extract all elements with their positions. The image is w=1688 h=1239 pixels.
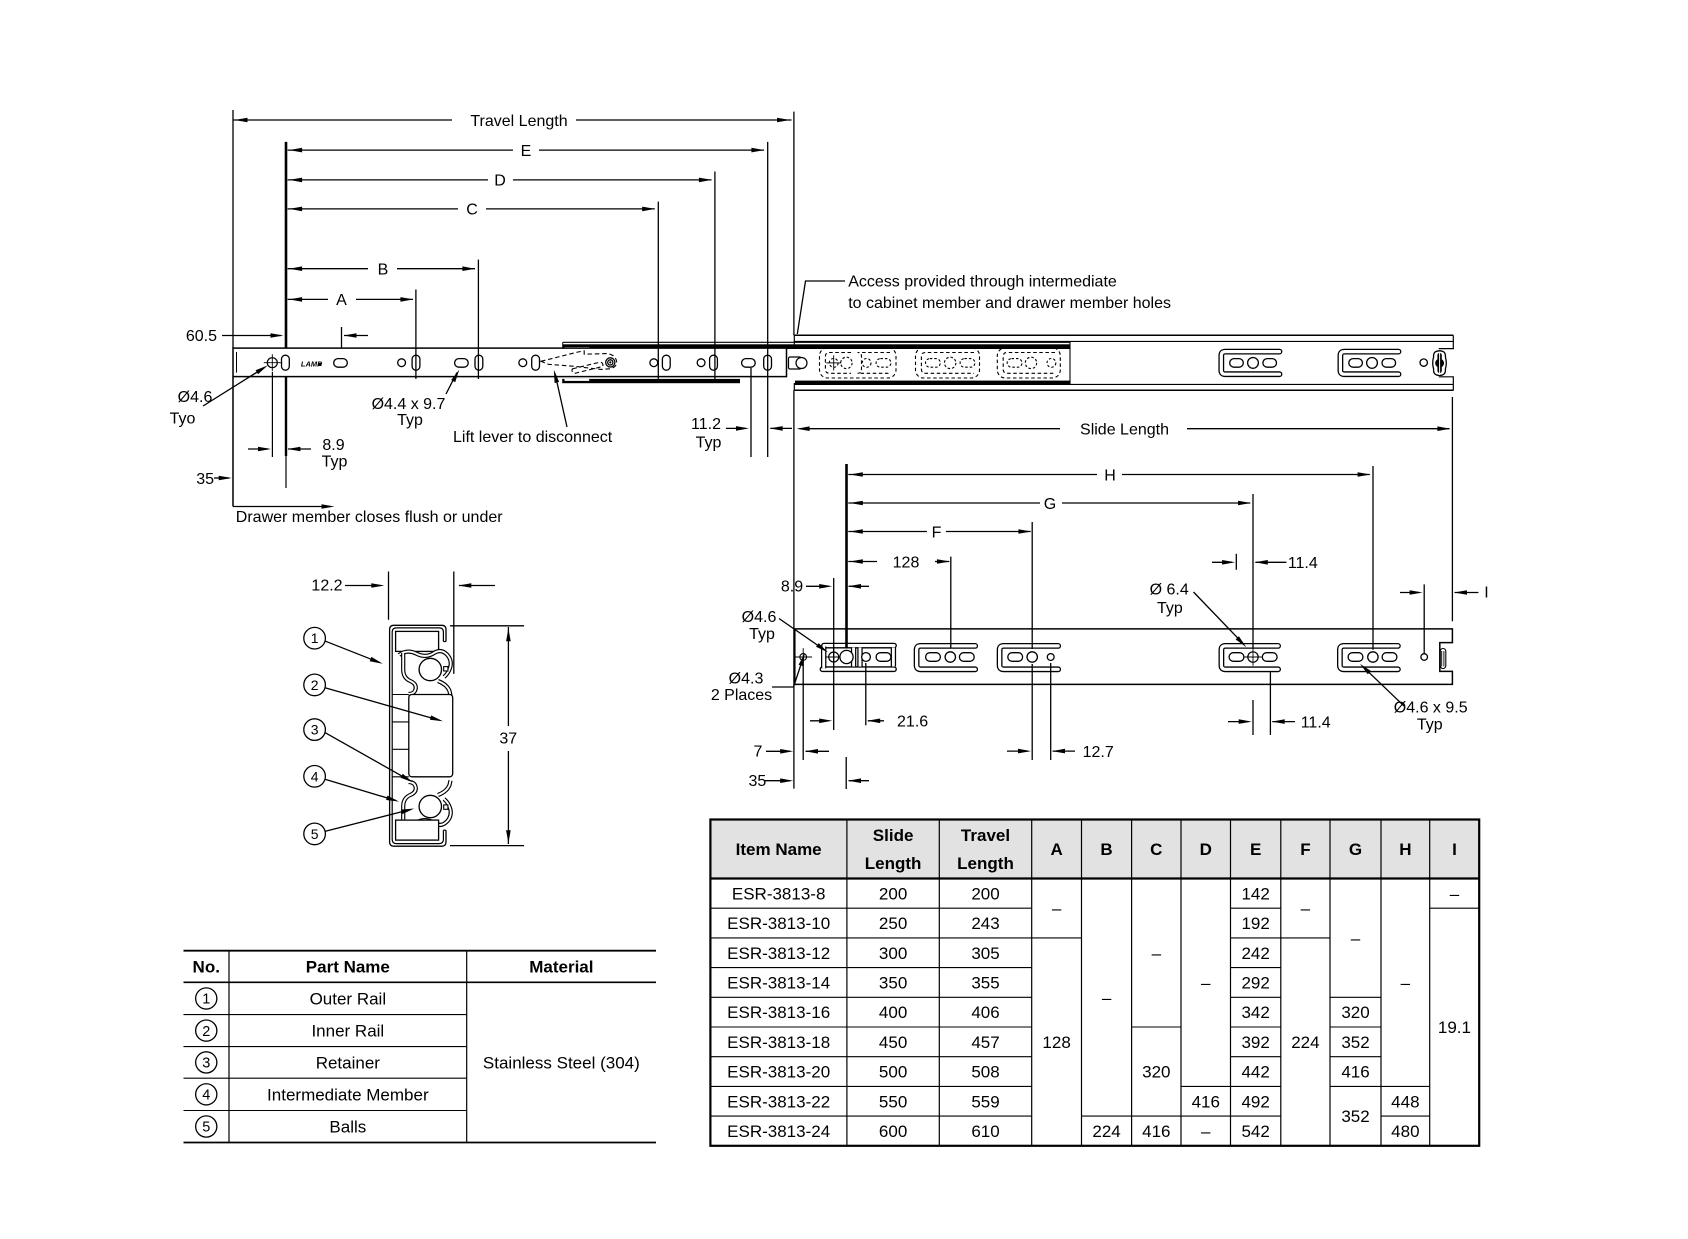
svg-text:2: 2 [311, 677, 319, 693]
svg-text:–: – [1201, 973, 1211, 992]
svg-text:B: B [1100, 840, 1112, 859]
dimension 12.7 [1007, 750, 1028, 752]
cross-section dimension 37 [507, 627, 509, 726]
section label 1 [304, 627, 326, 649]
svg-text:1: 1 [311, 630, 319, 646]
svg-text:Length: Length [865, 854, 922, 873]
svg-text:F: F [932, 524, 942, 541]
outer rail dashed access holes group 1 [820, 348, 897, 378]
bottom rail bracket 4 [1221, 646, 1278, 669]
svg-text:320: 320 [1341, 1003, 1369, 1022]
svg-text:11.4: 11.4 [1301, 714, 1331, 731]
svg-text:–: – [1351, 929, 1361, 948]
cross-section ball top [419, 658, 441, 680]
cross-section outer rail profile [390, 625, 446, 846]
svg-text:142: 142 [1241, 884, 1269, 903]
dimension 8.9 Typ [271, 372, 273, 457]
outer rail (cabinet member) side view [794, 334, 1453, 336]
svg-text:Typ: Typ [397, 412, 423, 429]
dimension 11.2 Typ [750, 368, 752, 457]
svg-text:5: 5 [311, 826, 319, 842]
svg-text:8.9: 8.9 [781, 579, 803, 596]
outer rail dashed access holes group 3 [997, 348, 1060, 378]
bottom rail hole: dia4.3 cross circle left [800, 654, 807, 661]
svg-text:457: 457 [971, 1033, 999, 1052]
svg-text:–: – [1152, 944, 1162, 963]
svg-text:3: 3 [202, 1056, 210, 1072]
bottom rail bracket 5 [1340, 646, 1398, 669]
lift lever dashed outline [541, 351, 617, 370]
svg-text:Typ: Typ [1157, 600, 1183, 617]
dimension 128 [848, 561, 877, 563]
svg-text:4: 4 [202, 1088, 210, 1104]
svg-text:11.2: 11.2 [691, 416, 721, 433]
svg-text:128: 128 [1042, 1033, 1070, 1052]
svg-text:8.9: 8.9 [322, 437, 344, 454]
svg-text:224: 224 [1092, 1122, 1120, 1141]
svg-text:Inner Rail: Inner Rail [311, 1022, 384, 1041]
bottom view rail outline [795, 629, 1453, 685]
svg-text:G: G [1044, 496, 1056, 513]
svg-text:500: 500 [879, 1063, 907, 1082]
svg-text:242: 242 [1241, 944, 1269, 963]
svg-text:21.6: 21.6 [897, 714, 928, 731]
note: drawer member closes flush or under [233, 506, 330, 508]
svg-text:ESR-3813-18: ESR-3813-18 [727, 1033, 830, 1052]
svg-text:406: 406 [971, 1003, 999, 1022]
bottom rail bracket 3 [1000, 646, 1059, 669]
cross-section retainer bottom [399, 799, 451, 825]
svg-text:Length: Length [957, 854, 1014, 873]
svg-text:Item Name: Item Name [736, 840, 822, 859]
svg-text:–: – [1201, 1122, 1211, 1141]
svg-text:5: 5 [202, 1120, 210, 1136]
inner rail (drawer member) side view [233, 348, 787, 377]
svg-text:Ø4.6 x 9.5: Ø4.6 x 9.5 [1394, 700, 1468, 717]
spec table header background [710, 820, 1479, 879]
bottom view dimension H [848, 474, 1097, 476]
top view: dimension Travel Length [233, 119, 452, 121]
dimension 11.4 top [1212, 561, 1232, 563]
dimension G [848, 502, 1040, 504]
svg-text:480: 480 [1391, 1122, 1419, 1141]
parts table [184, 950, 657, 952]
svg-text:305: 305 [971, 944, 999, 963]
svg-text:492: 492 [1241, 1092, 1269, 1111]
svg-text:–: – [1301, 899, 1311, 918]
svg-text:ESR-3813-16: ESR-3813-16 [727, 1003, 830, 1022]
svg-text:192: 192 [1241, 914, 1269, 933]
extension lines top dims [232, 110, 234, 348]
svg-text:352: 352 [1341, 1107, 1369, 1126]
svg-text:F: F [1300, 840, 1310, 859]
svg-text:Lift lever to disconnect: Lift lever to disconnect [453, 429, 613, 446]
svg-text:11.4: 11.4 [1288, 555, 1318, 572]
lift lever rivet [606, 358, 615, 367]
svg-text:Typ: Typ [749, 626, 775, 643]
parts row 1 [196, 988, 217, 1009]
intermediate member side view [563, 341, 1070, 343]
svg-text:559: 559 [971, 1092, 999, 1111]
svg-text:–: – [1450, 884, 1460, 903]
svg-text:C: C [466, 202, 478, 219]
svg-text:243: 243 [971, 914, 999, 933]
section label 5 [304, 823, 326, 845]
bottom rail right-end hole and crimp [1421, 654, 1428, 661]
svg-text:355: 355 [971, 973, 999, 992]
svg-text:E: E [521, 143, 532, 160]
svg-text:450: 450 [879, 1033, 907, 1052]
svg-text:Travel Length: Travel Length [470, 113, 567, 130]
svg-text:Tyo: Tyo [170, 411, 196, 428]
svg-text:D: D [494, 173, 506, 190]
cross-section top spacer [396, 631, 439, 651]
svg-text:ESR-3813-22: ESR-3813-22 [727, 1092, 830, 1111]
svg-text:Travel: Travel [961, 826, 1010, 845]
svg-text:Slide: Slide [873, 826, 914, 845]
svg-text:H: H [1104, 467, 1116, 484]
svg-text:Ø4.6: Ø4.6 [742, 609, 777, 626]
outer rail dashed access holes group 2 [916, 348, 980, 378]
parts row 3 [196, 1052, 217, 1073]
svg-text:A: A [1050, 840, 1062, 859]
cross-section ball bottom [419, 795, 441, 817]
svg-text:Access provided through interm: Access provided through intermediate [848, 274, 1117, 291]
svg-text:448: 448 [1391, 1092, 1419, 1111]
svg-text:35: 35 [196, 471, 214, 488]
outer rail mounting bracket 2 [1340, 352, 1398, 375]
svg-text:Retainer: Retainer [316, 1053, 381, 1072]
svg-text:416: 416 [1142, 1122, 1170, 1141]
parts row 2 [196, 1020, 217, 1041]
outer rail right-end hole and crimp slot [1420, 359, 1427, 366]
svg-text:–: – [1102, 988, 1112, 1007]
svg-text:ESR-3813-20: ESR-3813-20 [727, 1063, 830, 1082]
svg-text:Ø4.3: Ø4.3 [729, 671, 764, 688]
svg-text:G: G [1349, 840, 1362, 859]
dimension Slide Length [800, 428, 1061, 430]
svg-text:3: 3 [311, 722, 319, 738]
dimension 11.4 bottom [1228, 721, 1249, 723]
svg-text:Slide Length: Slide Length [1080, 422, 1169, 439]
dimension 21.6 [810, 720, 829, 722]
svg-text:Ø4.4 x 9.7: Ø4.4 x 9.7 [372, 396, 446, 413]
svg-text:128: 128 [893, 554, 920, 571]
svg-text:300: 300 [879, 944, 907, 963]
svg-text:C: C [1150, 840, 1162, 859]
svg-text:342: 342 [1241, 1003, 1269, 1022]
svg-text:Ø 6.4: Ø 6.4 [1150, 582, 1189, 599]
svg-text:292: 292 [1241, 973, 1269, 992]
cross-section inner rail [409, 695, 453, 777]
svg-text:550: 550 [879, 1092, 907, 1111]
svg-text:392: 392 [1241, 1033, 1269, 1052]
dimension E [288, 149, 513, 151]
svg-text:Typ: Typ [696, 435, 722, 452]
section label 2 [304, 674, 326, 696]
svg-text:416: 416 [1341, 1063, 1369, 1082]
svg-text:2 Places: 2 Places [711, 687, 772, 704]
svg-text:ESR-3813-8: ESR-3813-8 [732, 884, 826, 903]
svg-text:I: I [1452, 840, 1457, 859]
dimension B [288, 268, 368, 270]
spec table grid [710, 820, 1479, 1146]
dimension A [288, 298, 328, 300]
svg-text:7: 7 [754, 744, 763, 761]
svg-text:12.2: 12.2 [311, 578, 342, 595]
dimension I [1400, 592, 1419, 594]
svg-text:–: – [1401, 973, 1411, 992]
bottom rail bracket 2 [917, 646, 976, 669]
inner rail holes [267, 358, 277, 368]
section label 3 [304, 719, 326, 741]
svg-text:19.1: 19.1 [1438, 1018, 1471, 1037]
svg-text:200: 200 [971, 884, 999, 903]
svg-text:ESR-3813-24: ESR-3813-24 [727, 1122, 830, 1141]
dimension F [848, 531, 927, 533]
parts row 5 [196, 1116, 217, 1137]
cross-section retainer top [399, 651, 451, 677]
svg-text:ESR-3813-10: ESR-3813-10 [727, 914, 830, 933]
inner rail right end latch [789, 357, 802, 369]
svg-text:1: 1 [202, 992, 210, 1008]
svg-text:416: 416 [1192, 1092, 1220, 1111]
svg-text:Balls: Balls [329, 1118, 366, 1137]
svg-text:542: 542 [1241, 1122, 1269, 1141]
svg-text:H: H [1399, 840, 1411, 859]
svg-text:2: 2 [202, 1024, 210, 1040]
svg-text:508: 508 [971, 1063, 999, 1082]
svg-text:ESR-3813-14: ESR-3813-14 [727, 973, 830, 992]
bottom view extension lines [845, 464, 848, 649]
cross-section bottom spacer [396, 820, 439, 840]
dimension C [288, 208, 458, 210]
svg-text:600: 600 [879, 1122, 907, 1141]
svg-text:37: 37 [499, 731, 517, 748]
bottom rail bracket pair left [824, 643, 894, 649]
svg-text:200: 200 [879, 884, 907, 903]
svg-text:350: 350 [879, 973, 907, 992]
svg-text:Drawer member closes flush or: Drawer member closes flush or under [236, 509, 503, 526]
svg-text:442: 442 [1241, 1063, 1269, 1082]
svg-text:D: D [1200, 840, 1212, 859]
svg-text:ESR-3813-12: ESR-3813-12 [727, 944, 830, 963]
svg-text:250: 250 [879, 914, 907, 933]
svg-text:610: 610 [971, 1122, 999, 1141]
svg-text:Part Name: Part Name [306, 958, 390, 977]
section label 4 [304, 766, 326, 788]
svg-text:400: 400 [879, 1003, 907, 1022]
svg-text:224: 224 [1291, 1033, 1319, 1052]
svg-text:B: B [378, 262, 389, 279]
svg-text:Stainless Steel (304): Stainless Steel (304) [483, 1053, 640, 1072]
svg-text:–: – [1052, 899, 1062, 918]
svg-text:4: 4 [311, 768, 319, 784]
svg-text:320: 320 [1142, 1063, 1170, 1082]
svg-text:Typ: Typ [322, 454, 348, 471]
svg-text:352: 352 [1341, 1033, 1369, 1052]
dimension D [288, 179, 488, 181]
svg-text:to cabinet member and drawer m: to cabinet member and drawer member hole… [848, 295, 1171, 312]
svg-text:12.7: 12.7 [1083, 744, 1114, 761]
svg-text:A: A [336, 292, 347, 309]
outer rail mounting bracket 1 [1221, 352, 1279, 375]
svg-text:Typ: Typ [1417, 717, 1443, 734]
svg-text:I: I [1484, 584, 1488, 601]
svg-text:E: E [1250, 840, 1261, 859]
svg-text:Material: Material [529, 958, 593, 977]
svg-text:60.5: 60.5 [186, 328, 217, 345]
svg-text:Outer Rail: Outer Rail [310, 989, 387, 1008]
svg-text:No.: No. [193, 958, 220, 977]
svg-text:35: 35 [749, 773, 767, 790]
svg-text:Intermediate Member: Intermediate Member [267, 1085, 429, 1104]
parts row 4 [196, 1084, 217, 1105]
